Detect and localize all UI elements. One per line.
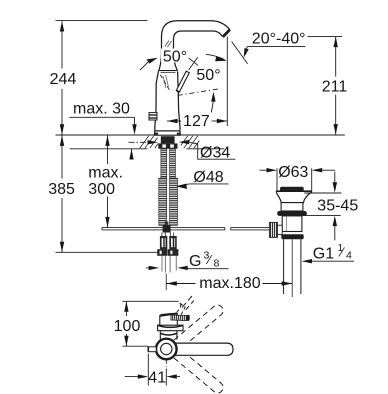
arrow down at y=252.3 on 385 line	[60, 242, 64, 253]
dimension 127 line	[167, 120, 227, 122]
dimension 244 vertical line	[61, 21, 63, 252]
dashed swivel spout upper position	[174, 305, 223, 349]
arrow down at y=134.6 on 211 line	[334, 124, 338, 135]
swivel arc with arrow near outlet	[206, 54, 225, 59]
wire: top extension line (spout top level)	[56, 20, 148, 22]
svg-text:41: 41	[148, 369, 166, 386]
svg-text:127: 127	[183, 113, 210, 130]
drain rubber washer	[277, 211, 307, 216]
drain pop-up plug disk	[280, 187, 304, 192]
side view body below cap	[160, 331, 177, 340]
dashed swivel spout lower position	[174, 350, 223, 394]
arrow down at y=135 on 244 line	[60, 124, 64, 135]
arrow right at x=292.2 (max180)	[282, 281, 293, 285]
svg-text:300: 300	[88, 181, 115, 198]
drain flange	[276, 191, 311, 202]
svg-text:4: 4	[346, 249, 352, 261]
leader arrow pointing up at dashed lever	[211, 92, 215, 102]
dimension max.30 upper arrow stem	[134, 117, 136, 124]
arrow up at y=21 on 244 line	[60, 21, 64, 32]
drain side inlet pipe	[277, 225, 282, 234]
lever base joint detail	[176, 91, 180, 93]
counter top line left segment	[56, 134, 155, 136]
svg-text:35-45: 35-45	[317, 197, 358, 214]
body top joint line	[159, 70, 178, 72]
right hose connector (G3/8)	[168, 236, 178, 256]
41 extension line right (axis)	[165, 369, 167, 386]
dashed raised lever position	[173, 303, 185, 320]
hose pipe tails below connectors	[162, 256, 176, 273]
svg-text:G: G	[189, 253, 201, 270]
svg-text:385: 385	[48, 181, 75, 198]
counter top line right segment	[180, 134, 345, 136]
arrow left at x=166.3 (max180)	[166, 281, 177, 285]
dimension G3/8 leader line with arrows	[146, 267, 156, 269]
drain mounting nut	[281, 234, 303, 239]
dimension O48 leader and arrow	[178, 184, 229, 186]
dimension 41 line with outside arrows	[125, 376, 138, 378]
side view cartridge cap	[160, 314, 178, 331]
svg-text:211: 211	[322, 79, 348, 96]
crossing leader lines near lever axis	[189, 57, 198, 70]
dimension max.180 line	[166, 283, 292, 285]
extension line at flange seat y=193	[304, 192, 341, 194]
dimension 100 vertical line	[125, 302, 127, 347]
drain tailpipe	[284, 239, 301, 294]
svg-text:Ø34: Ø34	[200, 144, 230, 161]
body shading strokes	[163, 75, 169, 88]
counter bottom line right segment	[187, 148, 225, 150]
side view centerline dashes	[165, 360, 167, 367]
dimension max.30 leader underline	[69, 116, 134, 118]
dimension 35-45 lower arrow	[334, 226, 336, 240]
counter hatching left of shank	[140, 136, 159, 148]
lever pin horizontal	[171, 315, 190, 321]
drain centerline rod	[291, 239, 293, 297]
wire: outlet tilted axis	[232, 42, 248, 64]
swivel joint inner ring	[161, 343, 172, 354]
arrow up at y=135.4 on max300 line	[105, 135, 109, 146]
41 extension line left	[147, 354, 149, 386]
svg-text:Ø63: Ø63	[278, 164, 308, 181]
threaded studs / hoses textured columns	[159, 149, 178, 226]
cap top dark edge	[160, 313, 177, 315]
horizontal pop-up rod left segment	[102, 228, 225, 230]
svg-text:100: 100	[114, 318, 141, 335]
side view: extension line at lever top	[122, 300, 178, 302]
dimension 35-45 upper arrow	[334, 172, 336, 183]
arrow right at x=227.3 (127 dim)	[217, 119, 228, 123]
white backing for 50deg labels	[161, 49, 189, 63]
faucet centerline extension down to max180	[165, 274, 167, 291]
arrow down at y=346.2 (100 dim)	[124, 336, 128, 347]
lever (solid, raised position)	[176, 71, 189, 92]
left hose connector (G3/8)	[157, 236, 167, 256]
svg-text:max.: max.	[88, 164, 123, 181]
dimension max.30 lower arrow	[131, 149, 133, 160]
base escutcheon plate	[155, 131, 181, 135]
cap lower rim band	[158, 325, 183, 331]
svg-text:Ø48: Ø48	[193, 169, 223, 186]
wall-side protrusion	[148, 347, 156, 352]
spout outlet face (aerator)	[223, 30, 230, 37]
G3/8 label underline	[185, 268, 228, 270]
swivel joint outer ring	[156, 339, 177, 360]
dashed lever alternate horizontal right	[178, 89, 220, 96]
svg-text:max. 30: max. 30	[73, 101, 130, 118]
leader for 20-40 with arrowhead	[247, 46, 305, 48]
arrow left at x=167 (127 dim)	[167, 119, 178, 123]
spout outer outline	[159, 21, 230, 71]
extension line at washer bottom y=215.4	[304, 214, 341, 216]
wire: outlet axis vertical extension	[226, 37, 228, 127]
wire: hose-end reference line y=252.3	[56, 251, 158, 253]
dashed lever alternate up-left	[160, 75, 169, 90]
faucet body outline	[155, 71, 159, 131]
rod junction fitting at faucet axis	[163, 225, 171, 233]
wire: extension from 20-40 text to 211 line	[308, 36, 343, 38]
svg-text:8: 8	[214, 258, 220, 270]
arrow down at y=227.4 on max300 line	[105, 217, 109, 228]
hose tails to connectors	[162, 233, 174, 237]
leader arrow at tube left (50 deg)	[140, 61, 149, 70]
side view: extension line at base	[122, 345, 148, 347]
mounting shank dark block below counter	[161, 136, 175, 143]
horizontal pop-up rod right segment	[231, 228, 270, 230]
spout inner outline	[174, 31, 223, 71]
tube shading ticks	[165, 41, 172, 48]
svg-text:G1: G1	[313, 245, 334, 262]
svg-text:50°: 50°	[163, 49, 187, 66]
dimension G1 1/4 leader with arrow	[310, 260, 355, 262]
svg-text:244: 244	[50, 71, 77, 88]
dashed fully raised lever dashes	[182, 296, 192, 308]
counter hatching right of shank	[181, 136, 200, 148]
side view spout bar	[167, 343, 233, 355]
drain neck	[281, 203, 303, 211]
dimension O63 line with outside arrows	[260, 169, 267, 171]
dimension max.300 vertical line	[107, 135, 109, 227]
dimension arrow pointing right at shank (O34)	[148, 140, 159, 144]
O63 extension lines	[277, 168, 312, 190]
dimension 211 vertical line	[335, 37, 337, 135]
drain side inlet knurled nut	[269, 222, 277, 237]
arrow up at y=135.2 on 385 line	[60, 135, 64, 146]
arrow up at y=36.6 on 211 line	[334, 37, 338, 48]
drain body	[282, 216, 302, 232]
horseshoe washer and nut	[158, 143, 177, 148]
dimension arrow pointing left at shank (O34) with leader to label	[179, 140, 190, 144]
svg-text:50°: 50°	[196, 67, 220, 84]
svg-text:20°-40°: 20°-40°	[252, 30, 306, 47]
centerline dashes left of shank	[129, 141, 149, 143]
arrow up at y=301.3 (100 dim)	[124, 301, 128, 312]
svg-text:max.180: max.180	[199, 275, 260, 292]
small knob on body left side	[149, 113, 157, 120]
counter bottom line left segment	[70, 148, 148, 150]
